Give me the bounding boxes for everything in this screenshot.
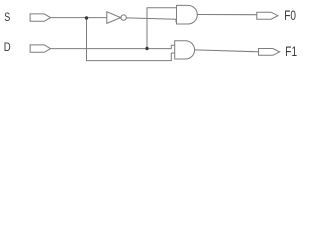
wire bottom AND output to F1 port <box>195 50 259 52</box>
wire top AND output to F0 port <box>197 14 256 16</box>
output port F0 <box>257 12 278 19</box>
inverter U1 bubble <box>121 15 126 20</box>
wire S to inverter <box>51 17 107 19</box>
svg-text:F1: F1 <box>285 43 297 59</box>
AND gate top (F0) <box>177 5 198 24</box>
wire inverter output to top AND gate lower input <box>126 18 176 22</box>
AND gate bottom (F1) <box>175 41 195 59</box>
wire D riser to top AND gate upper input <box>147 8 177 49</box>
wire S branch down and to bottom AND gate <box>87 18 175 61</box>
input port S <box>30 14 50 21</box>
wire D to bottom AND gate upper input <box>51 45 175 48</box>
svg-text:D: D <box>4 41 11 54</box>
output port F1 <box>259 49 280 56</box>
inverter U1 triangle <box>107 12 121 24</box>
input port D <box>30 45 50 52</box>
junction dot on S wire <box>85 16 88 19</box>
junction dot on D wire <box>145 47 148 50</box>
svg-text:S: S <box>4 11 10 25</box>
svg-text:F0: F0 <box>284 8 296 24</box>
